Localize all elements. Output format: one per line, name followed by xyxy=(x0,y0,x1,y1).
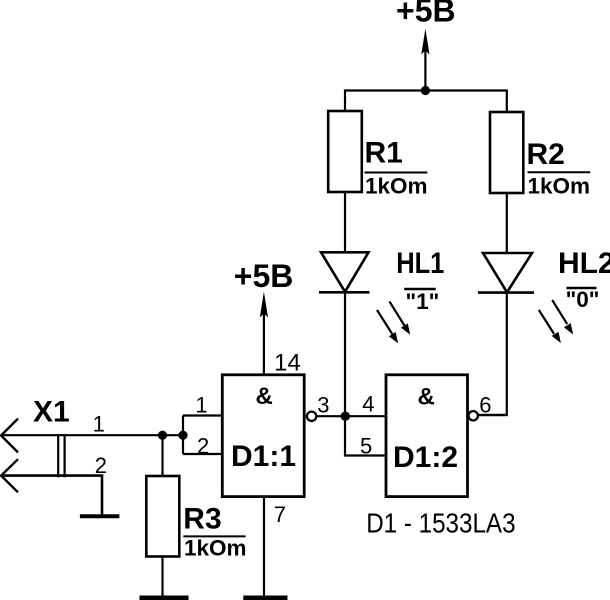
label HL1 "1" xyxy=(396,246,444,314)
node A junction dot xyxy=(341,412,350,421)
wire node A to pin 5 xyxy=(345,416,386,455)
svg-text:D1:1: D1:1 xyxy=(231,440,296,473)
LED HL1 xyxy=(319,252,370,292)
wire pin 4 xyxy=(345,415,386,417)
wire X1 pin 2 to ground xyxy=(2,476,102,515)
wire HL1 to node A xyxy=(344,292,346,416)
svg-text:"1": "1" xyxy=(406,289,440,314)
wire top rail xyxy=(345,91,507,114)
svg-text:D1 - 1533LA3: D1 - 1533LA3 xyxy=(366,507,515,539)
pin 6 inversion bubble xyxy=(469,411,478,420)
pin 3 inversion bubble xyxy=(307,412,316,421)
wire pin 1 xyxy=(183,414,223,416)
label R3 value 1kOm xyxy=(183,502,246,560)
HL2 emission arrow b xyxy=(539,310,561,343)
op-amp D1:2 NAND gate xyxy=(386,375,468,497)
svg-text:1: 1 xyxy=(93,411,105,436)
svg-text:R2: R2 xyxy=(527,138,565,171)
svg-text:1kOm: 1kOm xyxy=(365,173,428,198)
resistor R2 xyxy=(490,112,523,193)
wire pin 6 xyxy=(478,414,507,416)
wire pin 7 to ground xyxy=(263,497,265,596)
svg-text:2: 2 xyxy=(197,433,209,458)
svg-text:R1: R1 xyxy=(365,137,403,170)
HL1 emission arrow b xyxy=(377,310,398,343)
resistor R3 xyxy=(146,476,179,557)
HL1 emission arrow a xyxy=(390,302,411,335)
ground R3 xyxy=(140,596,189,600)
power arrow up (top) xyxy=(421,29,429,55)
wire pins 1-2 tie xyxy=(182,416,184,455)
op-amp D1:1 NAND gate xyxy=(222,375,304,497)
svg-text:X1: X1 xyxy=(33,396,70,429)
svg-text:1kOm: 1kOm xyxy=(184,536,247,561)
label R1 value 1kOm xyxy=(365,137,428,199)
svg-text:&: & xyxy=(418,384,435,411)
svg-text:"0": "0" xyxy=(566,287,600,312)
svg-text:4: 4 xyxy=(362,392,374,417)
label HL2 "0" xyxy=(558,247,610,312)
wire X1 pin 1 input xyxy=(2,434,183,436)
svg-text:5: 5 xyxy=(360,434,372,459)
wire R1 to HL1 xyxy=(344,192,346,253)
svg-text:D1:2: D1:2 xyxy=(393,441,458,474)
node junction dot top rail xyxy=(421,86,430,95)
svg-text:7: 7 xyxy=(274,502,286,527)
node junction dot to R3 xyxy=(158,431,167,440)
wire HL2 to pin 6 xyxy=(478,293,507,415)
wire R3 to ground xyxy=(161,557,163,597)
svg-text:+5B: +5B xyxy=(234,258,294,294)
svg-text:2: 2 xyxy=(95,453,107,478)
svg-text:HL1: HL1 xyxy=(396,246,444,279)
wire pin 2 xyxy=(183,453,223,455)
svg-text:3: 3 xyxy=(317,393,329,418)
wire pin 3 to node A xyxy=(317,415,345,417)
svg-text:HL2: HL2 xyxy=(558,247,610,280)
node junction dot to gate input xyxy=(178,431,187,440)
LED HL2 xyxy=(478,253,534,293)
connector X1 mating bars xyxy=(57,434,59,477)
svg-text:1kOm: 1kOm xyxy=(528,174,591,199)
svg-text:&: & xyxy=(256,383,273,410)
svg-text:R3: R3 xyxy=(183,502,221,535)
resistor R1 xyxy=(328,111,362,192)
connector X1 pin 2 chevron xyxy=(1,459,18,492)
ground X1 pin 2 xyxy=(80,514,120,518)
svg-text:+5B: +5B xyxy=(396,0,456,29)
label R2 value 1kOm xyxy=(527,138,591,199)
power arrow up (D1:1 pin 14) xyxy=(260,292,268,318)
svg-text:6: 6 xyxy=(479,392,491,417)
svg-text:1: 1 xyxy=(195,393,207,418)
wire node to R3 xyxy=(161,435,163,476)
svg-text:14: 14 xyxy=(274,350,301,377)
wire pin 14 xyxy=(263,313,265,375)
ground D1:1 pin 7 xyxy=(243,596,287,600)
wire R2 to HL2 xyxy=(506,193,508,254)
connector X1 pin 1 chevron xyxy=(1,419,18,453)
HL2 emission arrow a xyxy=(552,300,573,335)
